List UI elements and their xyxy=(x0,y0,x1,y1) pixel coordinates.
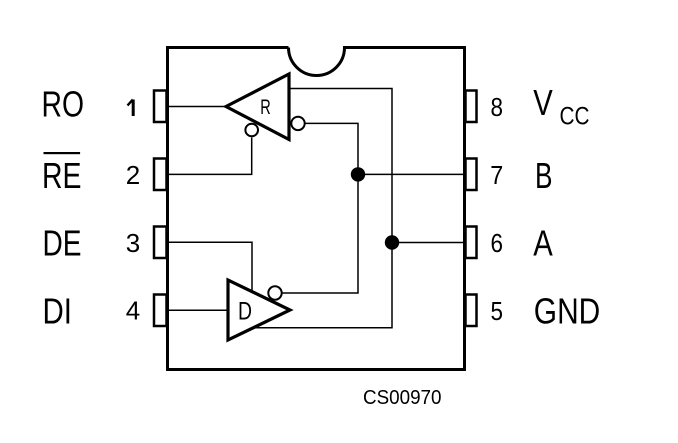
svg-text:GND: GND xyxy=(534,290,601,331)
junction node A xyxy=(385,235,399,249)
svg-text:RE: RE xyxy=(42,155,82,196)
receiver enable bubble xyxy=(245,124,258,137)
svg-text:2: 2 xyxy=(126,160,140,190)
pin 5 box xyxy=(466,295,477,327)
pin 7 box xyxy=(466,159,477,191)
svg-text:CS00970: CS00970 xyxy=(363,387,442,409)
IC package U1 body with index notch xyxy=(168,48,465,370)
svg-text:R: R xyxy=(260,96,271,119)
svg-text:D: D xyxy=(238,297,252,325)
svg-text:CC: CC xyxy=(560,102,590,130)
pin 3 box xyxy=(154,227,167,259)
svg-text:4: 4 xyxy=(126,296,140,326)
wire net A: receiver non-inverting input to driver output xyxy=(253,89,393,328)
junction node B xyxy=(351,167,365,181)
pin 2 box xyxy=(154,159,167,191)
svg-text:V: V xyxy=(533,82,553,123)
wire pin7 B xyxy=(358,173,466,175)
wire pin1 RO to receiver output xyxy=(168,106,227,108)
driver inverting output bubble xyxy=(268,286,281,299)
svg-text:RO: RO xyxy=(42,83,85,124)
pin 8 box xyxy=(466,91,477,123)
overline of RE xyxy=(44,152,81,154)
pin 6 box xyxy=(466,227,477,259)
pin 1 box xyxy=(154,91,167,123)
svg-text:3: 3 xyxy=(126,228,140,258)
wire pin4 DI to driver input xyxy=(168,309,229,311)
pin number 1 xyxy=(132,100,135,117)
op-amp receiver R triangle xyxy=(226,74,289,140)
svg-text:8: 8 xyxy=(491,92,504,122)
wire pin6 A xyxy=(392,242,466,244)
svg-text:DI: DI xyxy=(43,290,73,331)
svg-text:7: 7 xyxy=(490,160,503,190)
receiver inverting input bubble xyxy=(291,117,304,130)
wire pin2 RE to receiver enable bubble xyxy=(168,138,252,175)
svg-text:5: 5 xyxy=(491,296,504,326)
svg-text:6: 6 xyxy=(491,228,504,258)
wire pin3 DE to driver enable xyxy=(168,242,253,291)
svg-text:DE: DE xyxy=(43,222,82,263)
svg-text:B: B xyxy=(535,155,553,196)
op-amp driver D triangle xyxy=(228,280,290,340)
pin 4 box xyxy=(154,295,167,327)
wire net B: receiver inverting input bubble to driver inverting output bubble xyxy=(283,123,359,293)
svg-text:A: A xyxy=(533,223,553,264)
